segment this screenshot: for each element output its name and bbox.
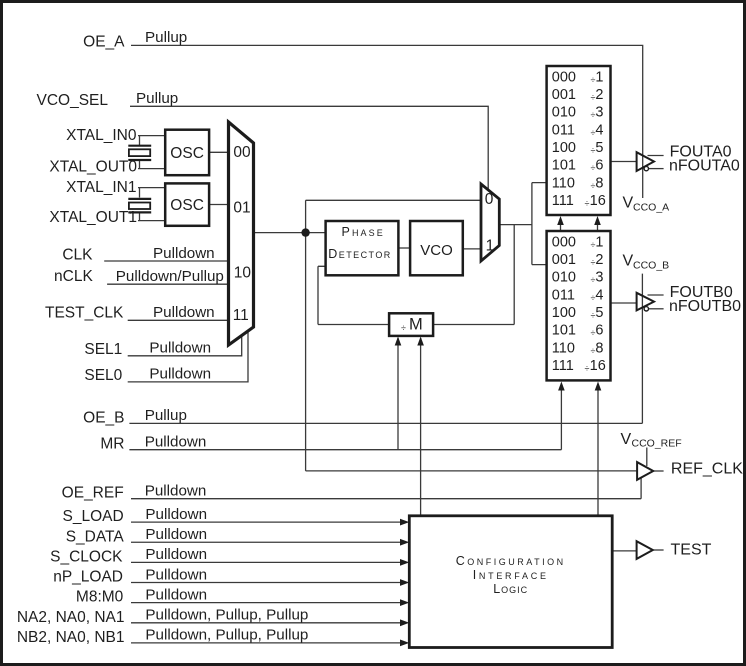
- svg-text:÷: ÷: [591, 328, 596, 338]
- svg-text:8: 8: [595, 175, 603, 191]
- svg-text:Pulldown: Pulldown: [149, 340, 211, 357]
- svg-text:Pullup: Pullup: [145, 29, 187, 46]
- svg-text:011: 011: [552, 122, 575, 138]
- svg-text:S_DATA: S_DATA: [66, 528, 125, 545]
- svg-text:CLK: CLK: [62, 246, 93, 263]
- svg-text:3: 3: [595, 270, 603, 286]
- svg-text:Pulldown: Pulldown: [145, 506, 207, 523]
- svg-text:VCO: VCO: [420, 242, 453, 259]
- svg-text:÷: ÷: [591, 257, 596, 267]
- svg-text:2: 2: [595, 252, 603, 268]
- svg-text:÷: ÷: [591, 346, 596, 356]
- svg-text:1: 1: [595, 234, 603, 250]
- svg-text:101: 101: [552, 323, 576, 339]
- svg-text:Pullup: Pullup: [145, 407, 187, 424]
- svg-text:110: 110: [552, 340, 575, 356]
- svg-text:10: 10: [234, 265, 252, 282]
- svg-text:001: 001: [552, 252, 576, 268]
- svg-text:011: 011: [552, 287, 575, 303]
- svg-text:Pulldown: Pulldown: [145, 586, 207, 603]
- svg-text:V: V: [623, 195, 634, 212]
- svg-text:010: 010: [552, 105, 576, 121]
- svg-text:6: 6: [595, 323, 603, 339]
- svg-text:÷: ÷: [591, 128, 596, 138]
- svg-text:010: 010: [552, 270, 576, 286]
- svg-text:8: 8: [595, 340, 603, 356]
- svg-text:4: 4: [595, 287, 603, 303]
- svg-text:÷: ÷: [591, 293, 596, 303]
- svg-text:1: 1: [486, 238, 495, 255]
- svg-text:100: 100: [552, 140, 576, 156]
- svg-text:Configuration: Configuration: [456, 554, 566, 568]
- svg-text:Pulldown: Pulldown: [145, 526, 207, 543]
- svg-text:OE_REF: OE_REF: [62, 485, 124, 502]
- svg-text:Pulldown: Pulldown: [145, 434, 207, 451]
- svg-text:÷: ÷: [591, 110, 596, 120]
- svg-text:11: 11: [233, 307, 249, 324]
- svg-text:00: 00: [233, 144, 251, 161]
- svg-text:5: 5: [595, 305, 603, 321]
- svg-text:V: V: [621, 431, 632, 448]
- svg-text:M: M: [409, 316, 423, 334]
- svg-text:÷: ÷: [591, 240, 596, 250]
- svg-text:VCO_SEL: VCO_SEL: [36, 92, 108, 109]
- svg-text:nCLK: nCLK: [54, 268, 93, 285]
- svg-text:OSC: OSC: [170, 145, 204, 162]
- svg-text:5: 5: [595, 140, 603, 156]
- svg-text:111: 111: [552, 193, 574, 209]
- svg-text:TEST_CLK: TEST_CLK: [45, 304, 124, 321]
- svg-text:16: 16: [590, 193, 606, 209]
- svg-text:Pulldown: Pulldown: [145, 483, 207, 500]
- svg-text:÷: ÷: [591, 92, 596, 102]
- svg-text:XTAL_OUT1: XTAL_OUT1: [49, 209, 137, 226]
- svg-text:Phase: Phase: [342, 225, 385, 239]
- svg-text:3: 3: [595, 105, 603, 121]
- svg-text:SEL1: SEL1: [84, 341, 122, 358]
- svg-text:1: 1: [595, 69, 603, 85]
- svg-text:÷: ÷: [591, 75, 596, 85]
- svg-text:÷: ÷: [585, 198, 590, 208]
- svg-text:CCO_B: CCO_B: [633, 260, 669, 272]
- svg-text:TEST: TEST: [671, 541, 712, 558]
- svg-text:M8:M0: M8:M0: [76, 589, 124, 606]
- svg-text:OSC: OSC: [170, 197, 204, 214]
- svg-text:Pulldown: Pulldown: [153, 304, 215, 321]
- svg-text:101: 101: [552, 158, 576, 174]
- svg-text:XTAL_OUT0: XTAL_OUT0: [49, 158, 137, 175]
- svg-text:S_CLOCK: S_CLOCK: [50, 548, 123, 565]
- svg-text:nFOUTA0: nFOUTA0: [669, 158, 740, 175]
- svg-text:Pulldown: Pulldown: [145, 546, 207, 563]
- svg-text:÷: ÷: [401, 323, 406, 333]
- svg-text:÷: ÷: [591, 310, 596, 320]
- svg-text:÷: ÷: [591, 145, 596, 155]
- svg-text:16: 16: [590, 358, 606, 374]
- svg-text:CCO_REF: CCO_REF: [632, 437, 682, 449]
- svg-text:V: V: [623, 253, 634, 270]
- svg-text:Pulldown, Pullup, Pullup: Pulldown, Pullup, Pullup: [145, 607, 308, 624]
- svg-text:001: 001: [552, 87, 576, 103]
- svg-text:NA2, NA0, NA1: NA2, NA0, NA1: [17, 609, 125, 626]
- svg-text:NB2, NA0, NB1: NB2, NA0, NB1: [17, 629, 125, 646]
- svg-text:Pulldown/Pullup: Pulldown/Pullup: [116, 268, 224, 285]
- svg-text:XTAL_IN0: XTAL_IN0: [66, 127, 137, 144]
- svg-text:000: 000: [552, 234, 576, 250]
- svg-text:2: 2: [595, 87, 603, 103]
- svg-text:6: 6: [595, 158, 603, 174]
- svg-text:REF_CLK: REF_CLK: [671, 460, 743, 477]
- svg-text:Pulldown: Pulldown: [153, 245, 215, 262]
- svg-text:01: 01: [233, 200, 250, 217]
- svg-text:Pulldown: Pulldown: [145, 566, 207, 583]
- svg-text:Pullup: Pullup: [136, 90, 178, 107]
- svg-text:4: 4: [595, 122, 603, 138]
- svg-text:Pulldown, Pullup, Pullup: Pulldown, Pullup, Pullup: [145, 627, 308, 644]
- svg-text:110: 110: [552, 175, 575, 191]
- svg-text:Interface: Interface: [473, 568, 549, 582]
- svg-text:nFOUTB0: nFOUTB0: [669, 298, 741, 315]
- svg-text:÷: ÷: [591, 275, 596, 285]
- svg-text:OE_B: OE_B: [83, 409, 124, 426]
- svg-text:Detector: Detector: [328, 247, 391, 261]
- svg-text:CCO_A: CCO_A: [633, 201, 669, 213]
- svg-text:OE_A: OE_A: [83, 34, 125, 51]
- svg-text:nP_LOAD: nP_LOAD: [53, 569, 123, 586]
- svg-text:MR: MR: [100, 436, 124, 453]
- svg-text:÷: ÷: [591, 181, 596, 191]
- svg-text:Pulldown: Pulldown: [149, 366, 211, 383]
- svg-text:SEL0: SEL0: [84, 367, 122, 384]
- svg-text:S_LOAD: S_LOAD: [63, 508, 124, 525]
- svg-text:Logic: Logic: [493, 582, 528, 596]
- svg-text:XTAL_IN1: XTAL_IN1: [66, 179, 136, 196]
- svg-text:0: 0: [485, 191, 494, 208]
- svg-text:÷: ÷: [591, 163, 596, 173]
- svg-text:000: 000: [552, 69, 576, 85]
- svg-text:÷: ÷: [585, 363, 590, 373]
- svg-text:100: 100: [552, 305, 576, 321]
- svg-text:111: 111: [552, 358, 574, 374]
